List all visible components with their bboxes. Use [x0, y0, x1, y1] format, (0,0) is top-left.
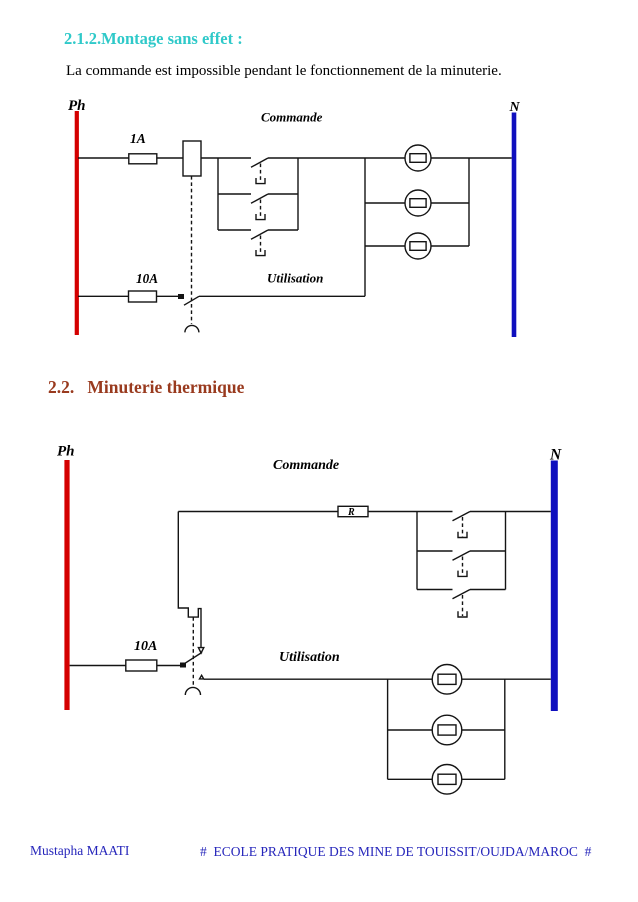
- svg-text:Utilisation: Utilisation: [267, 271, 323, 286]
- svg-text:N: N: [549, 447, 562, 464]
- svg-text:Utilisation: Utilisation: [279, 650, 340, 665]
- svg-text:N: N: [509, 100, 521, 115]
- svg-text:Commande: Commande: [273, 458, 339, 473]
- svg-text:10A: 10A: [136, 271, 158, 286]
- svg-text:Ph: Ph: [68, 98, 86, 114]
- svg-text:Commande: Commande: [261, 110, 323, 125]
- svg-text:10A: 10A: [134, 639, 157, 654]
- svg-text:Ph: Ph: [57, 444, 75, 460]
- svg-text:R: R: [347, 507, 355, 518]
- svg-text:1A: 1A: [130, 131, 146, 146]
